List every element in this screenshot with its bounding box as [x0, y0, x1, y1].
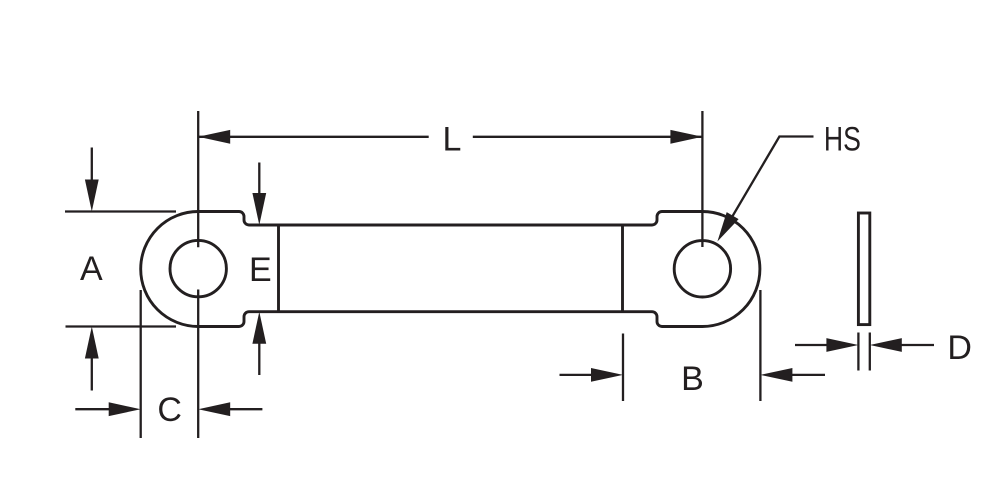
B right arrowhead: [760, 368, 792, 382]
right ferrule inner edge: [621, 225, 624, 312]
dimension L line left segment: [198, 136, 429, 138]
left hole: [170, 240, 226, 296]
right hole centerline: [701, 111, 703, 247]
D right arrowhead: [870, 338, 902, 352]
svg-text:HS: HS: [824, 120, 861, 158]
svg-text:E: E: [249, 251, 272, 289]
left hole centerline upper segment: [197, 111, 199, 247]
E top arrowhead: [252, 193, 266, 225]
A top extension line: [65, 210, 176, 212]
D left extension line: [857, 333, 859, 371]
B left arrowhead: [591, 368, 623, 382]
B dimension left tail: [560, 374, 592, 376]
A top arrowhead: [85, 180, 99, 212]
part outline front view: [141, 212, 760, 327]
L left arrowhead: [198, 130, 230, 144]
svg-text:D: D: [947, 329, 972, 367]
B dimension right tail: [792, 374, 825, 376]
C left arrowhead: [109, 402, 141, 416]
svg-text:B: B: [681, 360, 704, 398]
L right arrowhead: [670, 130, 702, 144]
svg-text:A: A: [80, 250, 103, 288]
left ferrule inner edge: [277, 225, 280, 312]
A bottom arrowhead: [85, 327, 99, 359]
E bottom arrowhead: [252, 312, 266, 344]
D dimension right tail: [901, 344, 934, 346]
right hole: [674, 241, 730, 297]
B left extension line: [622, 334, 624, 402]
HS leader arrowhead: [717, 212, 738, 241]
E bottom arrow stem: [258, 342, 260, 375]
D dimension left tail: [795, 344, 827, 346]
HS leader line: [722, 137, 814, 235]
D left arrowhead: [826, 338, 858, 352]
A bottom arrow stem: [91, 357, 93, 391]
C right arrowhead: [198, 402, 230, 416]
svg-text:C: C: [157, 391, 182, 429]
side view thin plate: [858, 213, 869, 325]
A top arrow stem: [91, 148, 93, 182]
dimension L line right segment: [473, 136, 703, 138]
left hole centerline lower segment / C right extension: [197, 290, 199, 439]
C dimension right tail: [230, 408, 263, 410]
svg-text:L: L: [443, 120, 462, 158]
B right extension line: [759, 290, 761, 401]
C dimension left tail: [75, 408, 109, 410]
E top arrow stem: [258, 163, 260, 195]
A bottom extension line: [66, 325, 177, 327]
C left extension line: [140, 290, 142, 438]
D right extension line: [869, 333, 871, 371]
